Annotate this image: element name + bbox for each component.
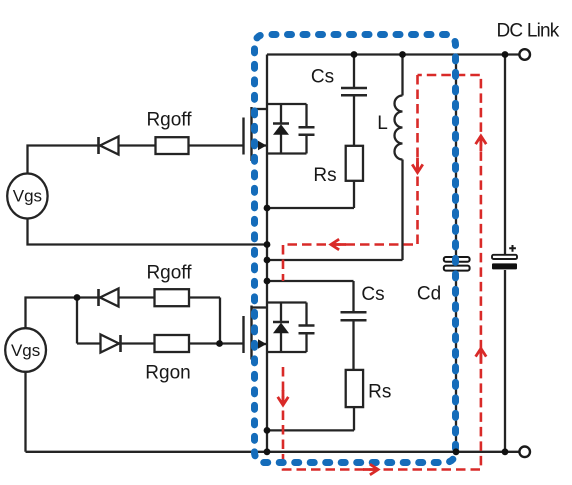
svg-text:Cd: Cd <box>417 284 441 305</box>
svg-text:Cs: Cs <box>311 67 334 88</box>
svg-text:Rgon: Rgon <box>145 363 190 384</box>
svg-text:Rs: Rs <box>368 382 391 403</box>
svg-text:Vgs: Vgs <box>11 341 40 360</box>
svg-text:Rgoff: Rgoff <box>146 263 192 284</box>
svg-text:Cs: Cs <box>361 284 384 305</box>
svg-text:Vgs: Vgs <box>13 187 42 206</box>
svg-text:DC Link: DC Link <box>497 21 560 42</box>
svg-text:Rgoff: Rgoff <box>146 110 192 131</box>
svg-text:L: L <box>377 113 388 134</box>
svg-text:Rs: Rs <box>313 165 336 186</box>
